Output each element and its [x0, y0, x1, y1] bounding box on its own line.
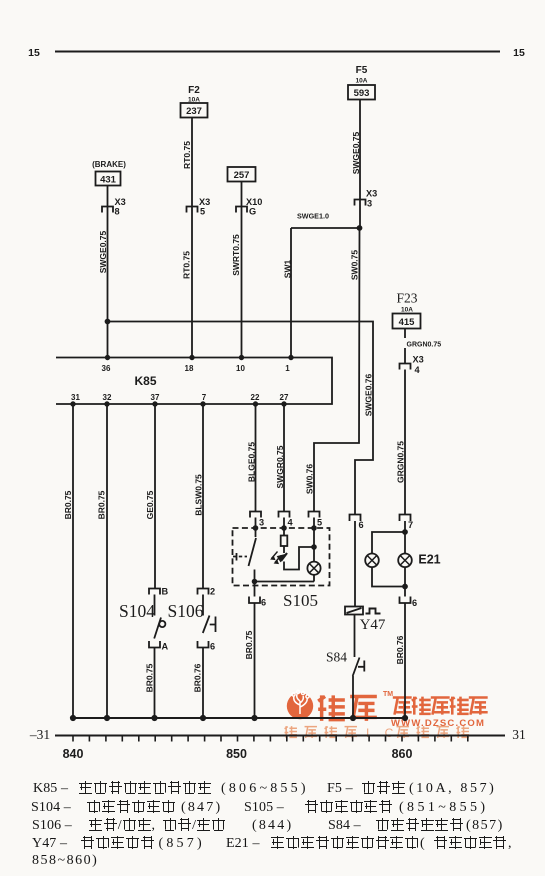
svg-text:F23: F23: [396, 291, 417, 306]
wire to Y47: [354, 521, 356, 607]
node pin7: [201, 402, 205, 406]
connector B top S104: [149, 589, 160, 595]
led S105: [281, 553, 287, 561]
svg-text:1: 1: [285, 364, 290, 373]
ref 257 labels: [228, 167, 256, 182]
svg-text:K85: K85: [134, 374, 156, 388]
wire F2 column: [191, 118, 193, 358]
connector 3 S105: [250, 512, 261, 518]
svg-text:27: 27: [280, 393, 289, 402]
node rail 31: [71, 716, 75, 720]
svg-text:6: 6: [261, 598, 266, 608]
svg-text:RT0.75: RT0.75: [182, 251, 192, 279]
solenoid valve Y47: [345, 607, 363, 615]
svg-text:31: 31: [71, 393, 80, 402]
node E21 top: [403, 530, 407, 534]
svg-text:X3: X3: [115, 197, 126, 207]
watermark slogan row: [285, 726, 357, 738]
wire 257 column: [241, 182, 243, 358]
legend line4 Y47: [32, 836, 67, 851]
wire node bus to F23 branch: [106, 322, 374, 515]
wire S84 ground: [352, 676, 354, 718]
svg-text:SW1: SW1: [283, 260, 293, 279]
node pin37: [153, 402, 157, 406]
connector 2 top S106: [198, 589, 209, 595]
connector 6 bottom S106: [198, 641, 209, 648]
legend line1 K85: [33, 781, 68, 796]
wire pin4 stub: [283, 518, 285, 536]
svg-text:SWGE0.75: SWGE0.75: [351, 131, 361, 174]
svg-text:BR0.76: BR0.76: [193, 663, 203, 692]
wire SW0.75 down: [314, 228, 360, 511]
svg-text:860: 860: [392, 747, 413, 761]
fuse F23 wire: [404, 329, 406, 364]
svg-text:BLGE0.75: BLGE0.75: [247, 442, 257, 482]
node junction on BRAKE column: [106, 320, 110, 324]
svg-text:2: 2: [210, 587, 215, 597]
svg-text:SW0.76: SW0.76: [305, 464, 315, 495]
svg-text:X3: X3: [199, 197, 210, 207]
svg-text:4: 4: [415, 365, 421, 375]
connector 5 S105: [309, 512, 320, 518]
svg-text:F2: F2: [188, 85, 200, 96]
svg-text:10: 10: [236, 364, 245, 373]
svg-text:X10: X10: [246, 197, 262, 207]
connector X3 pin4: [400, 364, 411, 370]
bus 15 rail: [55, 51, 500, 53]
svg-text:431: 431: [100, 175, 117, 186]
wire connector7 to node: [404, 521, 406, 554]
wire resistor to led: [283, 546, 285, 553]
svg-text:22: 22: [251, 393, 260, 402]
node S105 pin4: [282, 526, 286, 530]
node pin18: [190, 356, 194, 360]
svg-text:BR0.75: BR0.75: [63, 490, 73, 519]
connector X10 pinG: [236, 207, 247, 213]
wire pin27 to S105: [283, 404, 285, 511]
svg-text:8: 8: [115, 207, 120, 217]
switch S105 contact stub: [254, 570, 256, 582]
legend line5: [32, 853, 98, 868]
switch S104: [154, 595, 161, 639]
watermark chars dian zi shi chang wang: [393, 697, 412, 714]
connector 6 bottom E21: [400, 597, 411, 604]
svg-text:7: 7: [202, 393, 207, 402]
node rail E21: [403, 716, 407, 720]
watermark logo circle: [287, 693, 313, 719]
svg-text:31: 31: [512, 727, 526, 742]
svg-text:18: 18: [185, 364, 194, 373]
node pin36: [106, 356, 110, 360]
svg-text:6: 6: [210, 642, 215, 652]
svg-text:3: 3: [367, 199, 372, 209]
box S105 dashed: [233, 528, 330, 586]
wire S104 ground: [154, 648, 156, 719]
connector X3 pin8: [102, 207, 113, 213]
svg-text:840: 840: [63, 747, 84, 761]
resistor S105: [281, 536, 288, 547]
svg-text:S84: S84: [326, 650, 347, 665]
svg-text:SW0.75: SW0.75: [350, 250, 360, 281]
node pin32: [105, 402, 109, 406]
legend line2 S105: [244, 800, 284, 815]
node S105 lamp top: [312, 545, 316, 549]
svg-text:SWGE0.76: SWGE0.76: [364, 373, 374, 416]
svg-text:15: 15: [513, 47, 525, 59]
wire S106 ground: [202, 648, 204, 719]
svg-text:(BRAKE): (BRAKE): [92, 160, 126, 169]
wire F5 column: [359, 100, 361, 229]
wire led link: [284, 547, 314, 570]
svg-text:SWGR0.75: SWGR0.75: [275, 445, 285, 488]
lamp E21 left: [365, 554, 379, 568]
legend line3 S84: [328, 818, 361, 833]
node junction SWGE1.0: [358, 226, 362, 230]
svg-text:SWGE0.75: SWGE0.75: [98, 230, 108, 273]
lamp E21 right: [398, 554, 412, 568]
svg-text:BR0.76: BR0.76: [395, 635, 405, 664]
svg-text:415: 415: [399, 317, 416, 328]
watermark char ku: [350, 696, 377, 720]
control unit K85 box: [56, 358, 332, 405]
wire pin32 ground: [106, 404, 108, 718]
node S105 pin5: [312, 526, 316, 530]
svg-text:10A: 10A: [401, 307, 413, 314]
svg-text:7: 7: [408, 520, 413, 530]
svg-text:BLSW0.75: BLSW0.75: [194, 474, 204, 516]
wire S105 exit: [254, 582, 256, 597]
node rail 32: [105, 716, 109, 720]
wire pin3 stub: [255, 518, 257, 538]
ground rail 31: [73, 717, 405, 719]
node rail S106: [201, 716, 205, 720]
svg-text:G: G: [249, 207, 256, 217]
connector 4 S105: [279, 512, 290, 518]
svg-text:BR0.75: BR0.75: [97, 490, 107, 519]
wire S105 bottom link: [255, 581, 315, 583]
svg-text:BR0.75: BR0.75: [244, 630, 254, 659]
connector A bottom S104: [149, 641, 160, 648]
wire E21 ground: [404, 603, 406, 718]
svg-text:850: 850: [226, 747, 247, 761]
svg-text:257: 257: [234, 170, 250, 181]
node rail S104: [152, 716, 156, 720]
pulse symbol: [366, 609, 381, 614]
ruler ticks: [73, 736, 468, 742]
wire lamp bottom: [313, 575, 315, 582]
wire Y47 to S84: [354, 615, 356, 658]
svg-text:10A: 10A: [356, 78, 368, 85]
svg-text:3: 3: [259, 518, 264, 528]
wire pin22 to S105: [255, 404, 257, 511]
svg-text:B: B: [162, 587, 169, 597]
node pin22: [254, 402, 258, 406]
svg-text:SWGE1.0: SWGE1.0: [297, 212, 329, 221]
legend line4 E21: [226, 836, 260, 851]
legend line1 F5: [327, 781, 353, 796]
svg-text:6: 6: [359, 520, 364, 530]
svg-text:4: 4: [288, 518, 294, 528]
svg-text:A: A: [162, 642, 169, 652]
svg-text:32: 32: [103, 393, 112, 402]
svg-text:GE0.75: GE0.75: [145, 490, 155, 519]
svg-text:X3: X3: [413, 355, 424, 365]
legend line2 S104: [31, 800, 71, 815]
wire BRAKE column to K85 pin36: [107, 322, 109, 358]
svg-text:S104: S104: [119, 601, 155, 621]
wire pin31 ground: [72, 404, 74, 718]
svg-text:X3: X3: [366, 189, 377, 199]
svg-text:SWRT0.75: SWRT0.75: [231, 234, 241, 276]
svg-text:GRGN0.75: GRGN0.75: [396, 441, 406, 483]
svg-text:593: 593: [354, 88, 370, 99]
switch S105 actuator dashes: [233, 556, 247, 558]
node rail S105: [252, 716, 256, 720]
wire E21 lamps bottom: [372, 567, 405, 597]
switch S106: [203, 595, 216, 634]
wire pin7 to S106: [202, 404, 204, 589]
connector X3 pin3: [355, 200, 366, 206]
svg-text:5: 5: [200, 207, 205, 217]
connector 6 Y47 branch: [350, 515, 361, 522]
svg-text:F5: F5: [356, 65, 368, 76]
wire E21 left branch: [372, 532, 405, 554]
node rail S84: [351, 716, 355, 720]
node S105 pin3: [254, 526, 258, 530]
node pin27: [282, 402, 286, 406]
node pin1: [289, 356, 293, 360]
connector X3 pin5: [187, 207, 198, 213]
svg-text:37: 37: [151, 393, 160, 402]
wire SW1 branch: [291, 228, 360, 358]
svg-text:15: 15: [28, 47, 40, 59]
legend line3 S106: [32, 818, 72, 833]
switch S105 arm: [249, 538, 257, 566]
lamp S105: [307, 562, 320, 575]
wire pin5 stub: [313, 518, 315, 562]
wire F23 down: [404, 370, 406, 515]
svg-text:BR0.75: BR0.75: [145, 663, 155, 692]
svg-text:RT0.75: RT0.75: [182, 141, 192, 169]
watermark char wei: [318, 695, 345, 721]
svg-text:E21: E21: [418, 553, 440, 567]
node pin10: [240, 356, 244, 360]
svg-text:36: 36: [102, 364, 111, 373]
svg-text:Y47: Y47: [360, 617, 386, 633]
connector 6 bottom S105: [249, 597, 260, 604]
node S105 exit: [253, 580, 257, 584]
node E21 bottom: [403, 585, 407, 589]
svg-text:–31: –31: [29, 727, 50, 742]
svg-text:GRGN0.75: GRGN0.75: [407, 342, 442, 349]
wire pin37 to S104: [154, 404, 156, 589]
wire BRAKE column: [107, 186, 109, 322]
connector 7 E21: [400, 515, 411, 522]
svg-text:237: 237: [186, 106, 202, 117]
wire S105 ground: [254, 603, 256, 718]
svg-text:S105: S105: [283, 591, 318, 610]
svg-text:6: 6: [412, 598, 417, 608]
node pin31: [71, 402, 75, 406]
svg-text:S106: S106: [168, 601, 204, 621]
ruler track line: [55, 735, 505, 737]
switch S84: [353, 658, 365, 677]
svg-text:5: 5: [317, 518, 322, 528]
